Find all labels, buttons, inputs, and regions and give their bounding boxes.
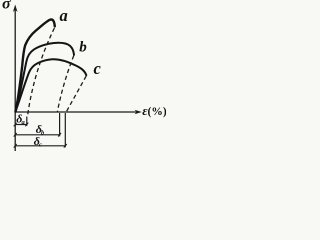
dashed offset line from curve b: [57, 56, 74, 113]
dashed offset line from curve c: [66, 76, 86, 112]
svg-text:a: a: [60, 6, 68, 25]
tick right dim1: [25, 123, 28, 127]
tick right dim2: [58, 133, 61, 137]
dimension line delta-c: [15, 145, 65, 147]
dimension line delta-a: [15, 124, 27, 126]
svg-text:c: c: [94, 59, 102, 78]
svg-text:σ: σ: [2, 0, 11, 12]
curve b: [16, 43, 75, 112]
tick left dim3: [14, 144, 17, 148]
extension vertical for delta-a: [26, 117, 28, 126]
extension vertical for delta-b: [59, 113, 61, 136]
tick left dim2: [14, 133, 17, 137]
epsilon axis (horizontal): [15, 111, 138, 113]
curve a: [16, 19, 55, 111]
svg-text:ε(%): ε(%): [142, 103, 166, 118]
dimension line delta-b: [15, 134, 59, 136]
sigma axis (vertical): [14, 8, 16, 151]
svg-text:b: b: [79, 39, 87, 55]
svg-text:c: c: [39, 142, 42, 149]
dashed offset line from curve a: [28, 28, 55, 116]
curve c: [16, 59, 87, 111]
sigma axis arrowhead: [13, 5, 18, 13]
tick right dim3: [64, 144, 67, 148]
extension vertical for delta-c: [64, 113, 66, 147]
tick left dim1: [14, 123, 17, 127]
epsilon axis arrowhead: [135, 110, 142, 115]
